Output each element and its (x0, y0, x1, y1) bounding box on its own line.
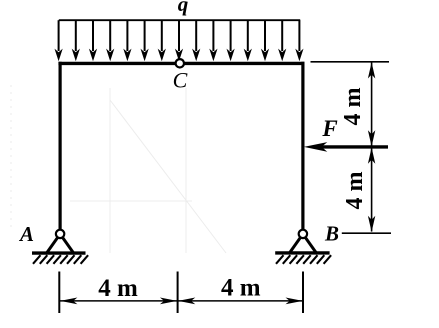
svg-text:4 m: 4 m (342, 172, 368, 210)
svg-text:4 m: 4 m (98, 275, 138, 302)
svg-text:F: F (321, 116, 337, 141)
svg-text:A: A (18, 222, 34, 246)
svg-text:B: B (324, 222, 339, 246)
svg-text:C: C (173, 68, 188, 93)
svg-text:4 m: 4 m (221, 275, 261, 302)
svg-text:4 m: 4 m (340, 88, 366, 126)
svg-text:q: q (178, 0, 189, 16)
